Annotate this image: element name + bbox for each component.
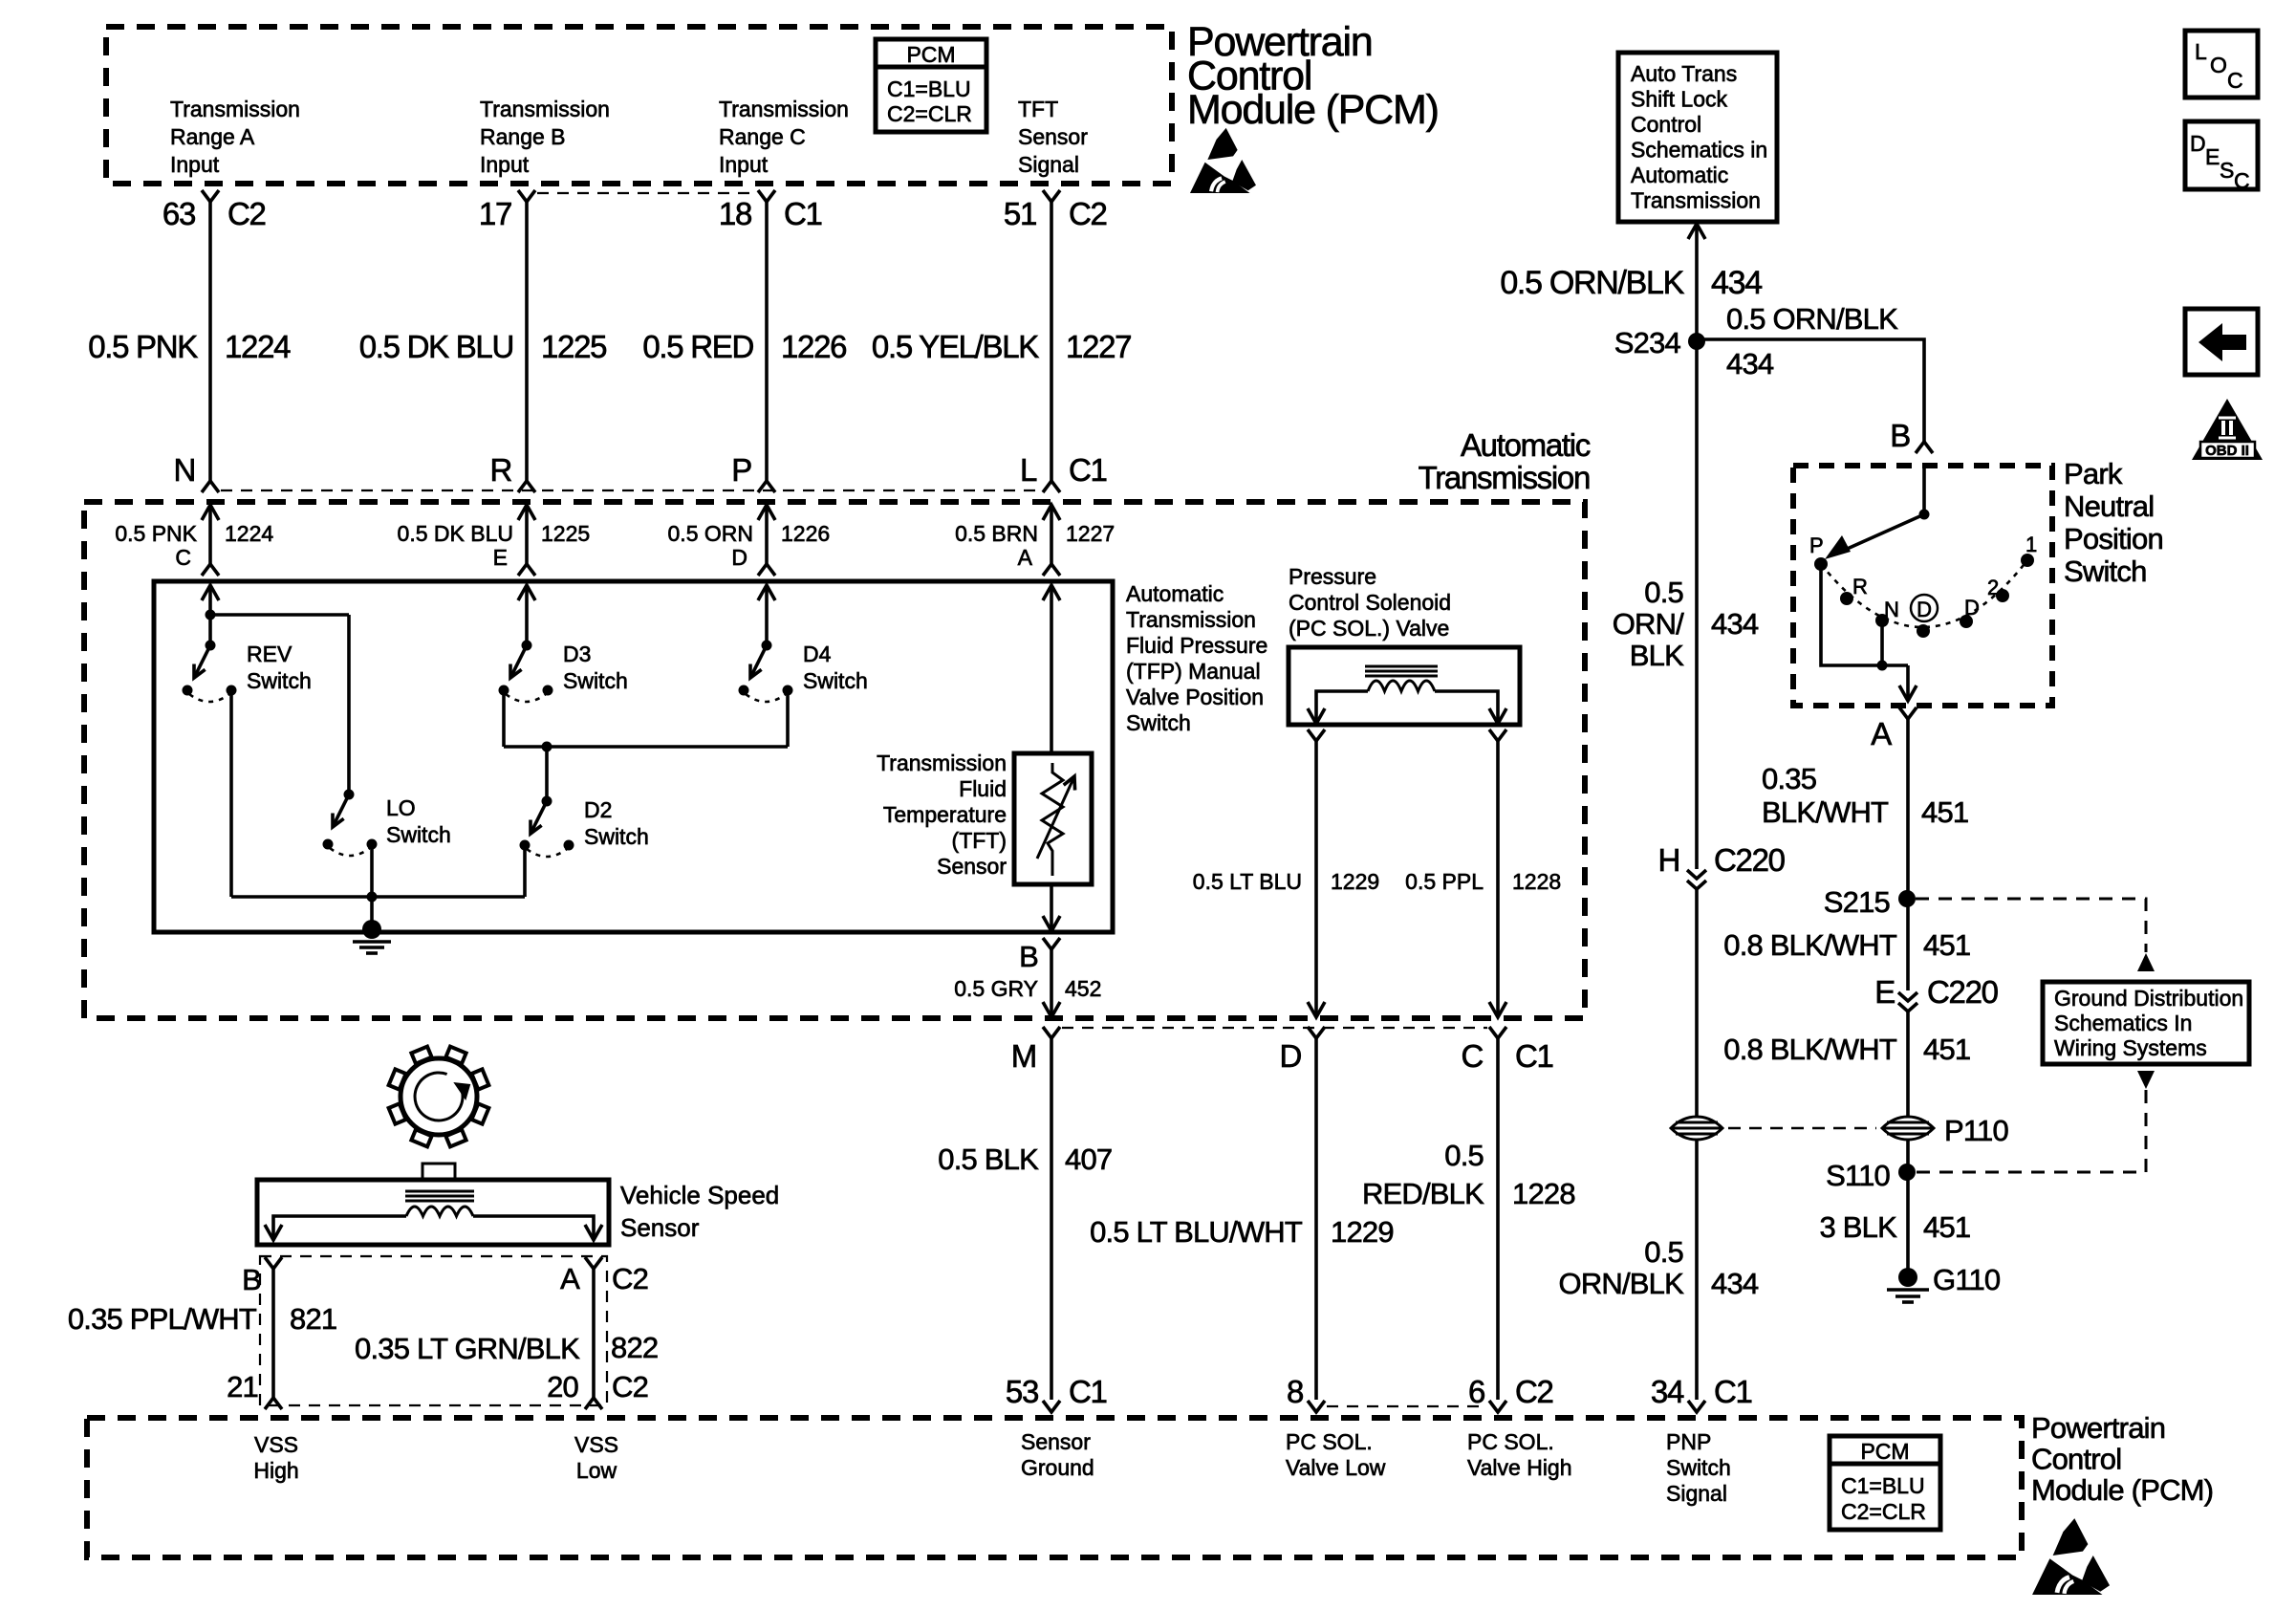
pin letter N [173,452,195,488]
svg-text:S234: S234 [1614,326,1681,359]
svg-text:Signal: Signal [1018,152,1079,177]
svg-text:Automatic: Automatic [1631,163,1728,187]
PC SOL valve box [1289,647,1520,725]
connector fork pin M [1043,1027,1060,1038]
svg-text:VSS: VSS [574,1432,618,1457]
grommet P110 (left) [1671,1117,1722,1140]
thin dashed connector line pins 17-18 [537,192,756,194]
svg-text:Temperature: Temperature [883,802,1007,827]
svg-text:Vehicle Speed: Vehicle Speed [620,1181,779,1209]
thin dashed connector line pins 8-6 [1327,1405,1487,1407]
thin dashed connector line M-C row [1062,1027,1487,1029]
wire 1228 [1496,741,1500,1017]
svg-text:0.5 LT BLU: 0.5 LT BLU [1193,869,1302,894]
connector fork below PC SOL valve (high) [1489,729,1506,741]
arrow wire 1224 inside box [202,585,219,600]
circuit number 1227 [1066,329,1131,364]
PCM (bottom) dashed module box [87,1418,2022,1557]
svg-text:34: 34 [1651,1374,1684,1409]
svg-text:18: 18 [719,196,751,231]
leader arrow up [2137,953,2155,971]
VSS connector dashed box [260,1256,607,1405]
svg-text:Auto Trans: Auto Trans [1631,61,1737,86]
Ground Distribution note box [2043,982,2249,1064]
pin number 51 [1004,196,1036,231]
svg-text:Switch: Switch [1126,710,1191,735]
svg-text:(TFP) Manual: (TFP) Manual [1126,659,1261,684]
label VSS Low [574,1432,618,1457]
arrow wire 1226 inside box [758,585,775,600]
svg-text:Transmission: Transmission [480,97,610,121]
ESD symbol (top PCM) [1190,128,1256,193]
wire 434 upper [1695,224,1699,341]
Park Neutral Position Switch dashed box [1793,466,2052,706]
OBD II triangle icon [2192,399,2263,460]
svg-text:PCM: PCM [906,42,955,67]
svg-text:Low: Low [576,1458,617,1483]
label P110 [1944,1114,2008,1147]
svg-text:1227: 1227 [1066,329,1131,364]
label PNP [1666,1429,1711,1454]
connector fork pin 34 [1688,1401,1705,1412]
svg-text:RED/BLK: RED/BLK [1362,1177,1484,1210]
svg-text:L: L [2195,39,2207,64]
Automatic Transmission label [1461,427,1591,463]
circuit number 1226 [781,521,830,546]
wire label 0.5 PNK [115,521,197,546]
svg-text:Input: Input [719,152,769,177]
D3 switch [522,641,532,651]
circuit number 1224 [225,329,291,364]
selector pivot [1919,510,1930,520]
svg-text:Valve Position: Valve Position [1126,685,1264,709]
PNP selector feed [1922,468,1926,514]
arrow into AT box wire 1227 [1043,505,1060,520]
svg-text:Sensor: Sensor [620,1213,700,1242]
arrow into AT box wire 1225 [518,505,535,520]
label PC SOL. [1467,1429,1554,1454]
svg-text:3 BLK: 3 BLK [1820,1210,1898,1244]
PCM legend box (bottom) [1830,1436,1940,1530]
svg-text:Fluid: Fluid [959,776,1007,801]
connector pin 51 fork [1043,190,1060,202]
svg-text:C2: C2 [612,1262,648,1295]
circuit number 434 branch [1726,347,1774,381]
svg-text:Ground: Ground [1021,1455,1094,1480]
wire to D2 switch [545,747,549,801]
svg-text:N: N [173,452,195,488]
svg-text:0.35: 0.35 [1762,762,1816,795]
ground bus junction [367,892,378,903]
wire 407 sensor ground [1050,1038,1053,1400]
svg-text:PC SOL.: PC SOL. [1286,1429,1373,1454]
pin letter B [1019,940,1038,973]
svg-text:A: A [1871,716,1892,751]
svg-text:PCM: PCM [1860,1439,1909,1464]
svg-text:D: D [1917,598,1932,621]
svg-text:S215: S215 [1824,885,1890,919]
Automatic Transmission dashed box [84,502,1585,1018]
svg-text:1224: 1224 [225,521,273,546]
wire label 0.5 GRY [954,976,1038,1001]
svg-text:Shift Lock: Shift Lock [1631,87,1727,112]
wire 434 main down [1695,341,1699,869]
svg-text:(TFT): (TFT) [952,828,1007,853]
thin dashed connector line N-L row [221,490,1041,491]
wire LO switch to ground bus [370,844,374,897]
wire N to output [1880,620,1884,665]
svg-text:Sensor: Sensor [937,854,1007,879]
svg-text:0.35 LT GRN/BLK: 0.35 LT GRN/BLK [355,1332,580,1365]
svg-text:REV: REV [247,642,292,666]
svg-text:Valve Low: Valve Low [1286,1455,1386,1480]
svg-text:0.5 DK BLU: 0.5 DK BLU [398,521,513,546]
sensor pickup stub [422,1164,455,1180]
svg-text:0.5 BRN: 0.5 BRN [955,521,1038,546]
label: Vehicle Speed Sensor [620,1181,779,1209]
svg-text:Range C: Range C [719,124,806,149]
svg-text:Module (PCM): Module (PCM) [2031,1473,2213,1507]
svg-text:E: E [1874,974,1895,1010]
wire 434 to pin 34 [1695,1140,1699,1400]
svg-text:451: 451 [1921,795,1968,829]
wire 1229 lower [1314,1038,1318,1400]
svg-text:51: 51 [1004,196,1036,231]
wire 1225 from PCM pin 17 [525,202,529,481]
svg-text:D: D [2190,131,2206,156]
rotation arrow [415,1073,463,1120]
svg-text:P: P [1809,533,1824,557]
connector fork B below box [1043,938,1060,949]
LO switch [344,790,355,800]
pin letter A [1018,545,1033,570]
svg-text:20: 20 [547,1370,578,1403]
connector id C1 [1515,1038,1553,1074]
pin number 63 [162,196,195,231]
svg-text:H: H [1657,842,1679,878]
svg-text:C: C [1461,1038,1483,1074]
svg-text:Sensor: Sensor [1021,1429,1091,1454]
svg-text:Park: Park [2064,457,2123,490]
TFT sensor box [1014,753,1092,884]
junction in PNP switch [1877,661,1888,671]
svg-text:Position: Position [2064,522,2163,555]
svg-text:Range B: Range B [480,124,566,149]
VSS coil [406,1207,473,1216]
label PC SOL. [1286,1429,1373,1454]
svg-text:0.8 BLK/WHT: 0.8 BLK/WHT [1723,1033,1897,1066]
svg-text:1225: 1225 [541,329,606,364]
svg-text:1228: 1228 [1512,869,1561,894]
pin letter B [1890,418,1910,453]
wire 451 to ground [1906,1172,1910,1272]
wire to LO switch [210,613,349,617]
label: Transmission Range C Input [719,97,849,121]
svg-text:D4: D4 [803,642,832,666]
svg-text:0.5 YEL/BLK: 0.5 YEL/BLK [872,329,1039,364]
arrow wire 1225 inside box [518,585,535,600]
connector fork below PC SOL valve (low) [1308,729,1325,741]
svg-text:0.5: 0.5 [1444,1139,1484,1172]
svg-text:A: A [1018,545,1033,570]
solenoid core lines [1365,665,1438,668]
pin letter R [489,452,511,488]
in-line connector E C220 [1874,974,1895,1010]
wire 452 to AT box edge [1050,949,1053,1017]
svg-text:0.5 BLK: 0.5 BLK [938,1142,1039,1176]
wire label 0.5 ORN [668,521,753,546]
svg-text:C1: C1 [1714,1374,1752,1409]
svg-text:Input: Input [170,152,220,177]
svg-text:S: S [2220,158,2234,183]
wire 1228 lower [1496,1038,1500,1400]
svg-text:Fluid Pressure: Fluid Pressure [1126,633,1267,658]
svg-text:High: High [253,1458,298,1483]
svg-text:Control: Control [1631,112,1701,137]
svg-text:Switch: Switch [584,824,649,849]
svg-text:451: 451 [1923,1033,1970,1066]
connector fork pin 8 [1308,1401,1325,1412]
svg-text:1227: 1227 [1066,521,1115,546]
connector fork pin D [1308,1027,1325,1038]
svg-text:Module (PCM): Module (PCM) [1187,87,1439,133]
pin number 6 [1468,1374,1484,1409]
svg-text:C1=BLU: C1=BLU [1841,1473,1925,1498]
svg-text:Range A: Range A [170,124,255,149]
svg-text:0.5 PNK: 0.5 PNK [115,521,197,546]
wire label 0.5 BRN [955,521,1038,546]
svg-text:Transmission: Transmission [877,751,1007,775]
svg-text:P110: P110 [1944,1114,2008,1147]
arrow into AT box wire 1224 [202,505,219,520]
wire 1224 from PCM pin 63 [208,202,212,481]
circuit number 1225 [541,329,606,364]
svg-text:451: 451 [1923,928,1970,962]
connector fork at E [518,564,535,576]
circuit number 1224 [225,521,273,546]
arrow to shift lock box [1688,224,1705,239]
svg-text:0.5 ORN: 0.5 ORN [668,521,753,546]
svg-text:0.5 LT BLU/WHT: 0.5 LT BLU/WHT [1090,1215,1303,1249]
connector fork at A [1043,564,1060,576]
circuit number 1227 [1066,521,1115,546]
branch wire 434 to PNP switch [1697,339,1924,442]
svg-text:0.35 PPL/WHT: 0.35 PPL/WHT [68,1302,257,1336]
svg-text:Pressure: Pressure [1289,564,1376,589]
svg-text:Automatic: Automatic [1126,581,1224,606]
pin number 18 [719,196,751,231]
wire label 0.5 RED [642,329,753,364]
connector id C2 [227,196,266,231]
svg-text:8: 8 [1287,1374,1303,1409]
svg-text:M: M [1011,1038,1036,1074]
DESC icon box [2185,121,2258,189]
connector fork at N [202,481,219,492]
circuit number 1226 [781,329,846,364]
LOC icon box [2185,31,2258,98]
connector id C1 [1714,1374,1752,1409]
splice S110 [1898,1164,1916,1181]
wire label 0.5 LT BLU [1193,869,1302,894]
svg-text:17: 17 [479,196,511,231]
svg-text:D2: D2 [584,797,612,822]
svg-text:Transmission: Transmission [1126,607,1256,632]
svg-text:C1: C1 [1069,1374,1107,1409]
svg-text:0.5: 0.5 [1644,576,1683,609]
svg-text:1229: 1229 [1331,869,1379,894]
connector fork A (VSS) [585,1257,602,1269]
label Sensor [1021,1429,1091,1454]
dashed contact arc [1821,560,2027,627]
wire label 0.5 PNK [88,329,198,364]
splice S215 [1898,890,1916,907]
svg-text:6: 6 [1468,1374,1484,1409]
dashed link between P110 grommets [1728,1127,1876,1130]
svg-text:Control Solenoid: Control Solenoid [1289,590,1451,615]
svg-text:Transmission: Transmission [170,97,300,121]
svg-text:0.5 GRY: 0.5 GRY [954,976,1038,1001]
svg-text:BLK: BLK [1630,639,1684,672]
svg-text:0.5 PNK: 0.5 PNK [88,329,198,364]
svg-text:1225: 1225 [541,521,590,546]
svg-text:G110: G110 [1933,1263,2001,1296]
pin letter D [731,545,747,570]
svg-text:Schematics in: Schematics in [1631,138,1767,163]
svg-text:C2=CLR: C2=CLR [887,101,972,126]
svg-text:TFT: TFT [1018,97,1058,121]
connector fork at L [1043,481,1060,492]
pin letter A [1871,716,1892,751]
svg-text:452: 452 [1065,976,1101,1001]
svg-text:0.5: 0.5 [1644,1235,1683,1269]
PCM legend text (top) [906,42,955,67]
VSS leads [273,1216,406,1239]
svg-text:B: B [1019,940,1038,973]
pin number 8 [1287,1374,1303,1409]
svg-text:D: D [1279,1038,1301,1074]
svg-text:407: 407 [1065,1142,1112,1176]
svg-text:E: E [2205,144,2220,169]
TFT thermistor symbol [1042,763,1063,876]
svg-text:OBD II: OBD II [2205,443,2249,459]
svg-text:Switch: Switch [803,668,868,693]
label: Transmission Range A Input [170,97,300,121]
svg-text:PC SOL.: PC SOL. [1467,1429,1554,1454]
solenoid coil [1368,681,1435,691]
svg-text:C1=BLU: C1=BLU [887,76,971,101]
svg-text:Switch: Switch [2064,555,2147,588]
pin letter L [1020,452,1037,488]
svg-text:C1: C1 [1515,1038,1553,1074]
PCM legend box (top) [876,39,986,132]
wire 1226 from PCM pin 18 [765,202,769,481]
svg-text:1229: 1229 [1331,1215,1394,1249]
svg-text:Sensor: Sensor [1018,124,1088,149]
svg-text:Wiring Systems: Wiring Systems [2054,1035,2207,1060]
wire 1229 [1314,741,1318,1017]
wire P to output [1821,564,1908,665]
svg-text:0.5 ORN/BLK: 0.5 ORN/BLK [1726,302,1898,336]
Powertrain Control Module (PCM) label bottom [2031,1411,2165,1445]
svg-text:434: 434 [1711,1267,1759,1300]
label: Automatic Transmission Fluid Pressure (TFP) Manual Valve Position Switch [1126,581,1224,606]
grommet P110 (right) [1882,1117,1934,1140]
svg-text:C: C [2227,68,2243,93]
solenoid leads [1316,691,1368,723]
svg-text:C1: C1 [784,196,822,231]
wire label 0.5 ORN/BLK [1500,265,1684,301]
svg-text:ORN/BLK: ORN/BLK [1559,1267,1685,1300]
svg-text:Switch: Switch [247,668,312,693]
svg-text:Transmission: Transmission [1631,188,1761,213]
arrow at switch box bottom [1043,916,1060,931]
svg-text:0.5 RED: 0.5 RED [642,329,753,364]
label G110 [1933,1263,2001,1296]
reluctor gear icon [401,1058,477,1135]
svg-text:C2: C2 [1515,1374,1553,1409]
wire 822 [592,1269,596,1398]
svg-text:VSS: VSS [254,1432,298,1457]
wire 1227 from PCM pin 51 [1050,202,1053,481]
svg-text:D3: D3 [563,642,591,666]
pin letter P [731,452,751,488]
svg-text:LO: LO [386,795,416,820]
connector id C2 [1069,196,1107,231]
svg-text:R: R [489,452,511,488]
svg-text:C: C [2234,168,2250,193]
svg-text:1224: 1224 [225,329,291,364]
wire 821 [271,1269,275,1398]
junction to LO switch feed [206,610,216,620]
svg-text:B: B [1890,418,1910,453]
svg-text:21: 21 [227,1370,258,1403]
svg-text:Valve High: Valve High [1467,1455,1572,1480]
svg-text:0.5 PPL: 0.5 PPL [1405,869,1484,894]
connector pin 17 fork [518,190,535,202]
svg-text:E: E [493,545,508,570]
wire D2 switch to ground bus [523,845,527,897]
svg-text:451: 451 [1923,1210,1970,1244]
svg-text:Neutral: Neutral [2064,490,2154,523]
svg-text:0.5 ORN/BLK: 0.5 ORN/BLK [1500,265,1684,301]
svg-text:Switch: Switch [1666,1455,1731,1480]
wire label 0.5 DK BLU [398,521,513,546]
svg-text:53: 53 [1006,1374,1038,1409]
pin letter D [1279,1038,1301,1074]
svg-text:434: 434 [1726,347,1774,381]
svg-text:Transmission: Transmission [1419,460,1590,495]
pin 20 fork [585,1398,602,1409]
svg-text:B: B [242,1263,261,1296]
svg-text:434: 434 [1711,265,1762,301]
Powertrain Control Module (PCM) label top [1187,19,1373,65]
REV switch [206,641,216,651]
connector id C2 [1515,1374,1553,1409]
leader arrow down [2137,1071,2155,1089]
svg-text:C: C [175,545,191,570]
svg-text:R: R [1852,575,1868,598]
connector id C1 [1069,1374,1107,1409]
svg-text:Transmission: Transmission [719,97,849,121]
wire label 0.5 PPL [1405,869,1484,894]
pin letter E [493,545,508,570]
splice S234 [1688,333,1705,350]
label: Transmission Fluid Temperature (TFT) Sensor [877,751,1007,775]
pin letter M [1011,1038,1036,1074]
arrow at AT box bottom edge [1043,1002,1060,1017]
svg-text:0.5 DK BLU: 0.5 DK BLU [359,329,513,364]
D4 switch [762,641,772,651]
